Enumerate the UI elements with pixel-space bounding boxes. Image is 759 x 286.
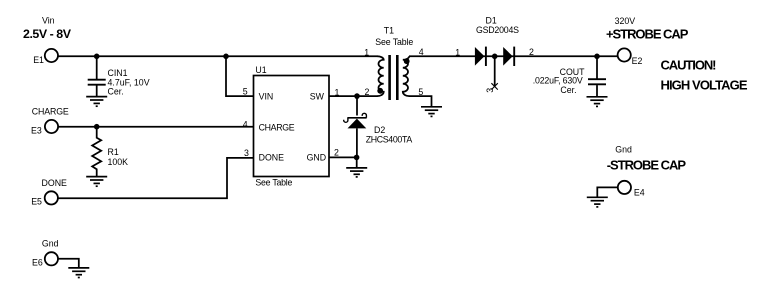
svg-text:U1: U1 bbox=[255, 65, 266, 75]
svg-text:ZHCS400TA: ZHCS400TA bbox=[366, 135, 413, 145]
wire T1 pin5 to ground bbox=[409, 96, 432, 106]
svg-text:2: 2 bbox=[334, 147, 339, 157]
wire GND pin to D2 bbox=[329, 156, 357, 158]
svg-text:4: 4 bbox=[243, 119, 248, 129]
T1 primary polarity dot bbox=[377, 88, 383, 94]
wire CIN1 top lead bbox=[96, 56, 98, 79]
svg-text:T1: T1 bbox=[384, 25, 394, 35]
svg-text:DONE: DONE bbox=[42, 178, 68, 188]
resistor R1 bbox=[92, 127, 101, 177]
wire D2 anode lead bbox=[356, 128, 358, 157]
ground at COUT bbox=[587, 97, 608, 107]
svg-text:100K: 100K bbox=[108, 157, 129, 167]
junction between diodes bbox=[492, 54, 498, 60]
junction at COUT bbox=[594, 54, 600, 60]
T1 primary winding bbox=[377, 56, 383, 96]
ground at R1 bbox=[86, 177, 107, 187]
wire DONE net bbox=[58, 158, 254, 198]
T1 secondary polarity dot bbox=[404, 58, 410, 64]
terminal E3 bbox=[45, 120, 58, 133]
svg-text:1: 1 bbox=[455, 48, 460, 58]
svg-text:DONE: DONE bbox=[259, 153, 285, 163]
ground at D2 bbox=[346, 168, 367, 177]
junction at D2 bbox=[354, 93, 360, 99]
svg-text:E2: E2 bbox=[632, 56, 643, 66]
ground at E4 bbox=[587, 197, 608, 207]
ground at E6 bbox=[68, 268, 89, 278]
svg-text:R1: R1 bbox=[108, 147, 119, 157]
svg-text:E5: E5 bbox=[31, 196, 42, 206]
terminal E1 bbox=[45, 49, 58, 62]
svg-text:2: 2 bbox=[365, 87, 370, 97]
svg-text:VIN: VIN bbox=[259, 92, 274, 102]
wire COUT top lead bbox=[596, 56, 598, 79]
svg-text:GND: GND bbox=[307, 153, 327, 163]
wire CHARGE net bbox=[58, 126, 254, 128]
svg-text:1: 1 bbox=[364, 48, 369, 58]
D1 diode A bbox=[475, 47, 485, 66]
svg-text:Cer.: Cer. bbox=[560, 85, 576, 95]
junction at R1 bbox=[94, 124, 100, 130]
terminal E6 bbox=[45, 252, 58, 265]
wire D1 pin3 stub bbox=[494, 56, 496, 87]
svg-text:HIGH VOLTAGE: HIGH VOLTAGE bbox=[661, 77, 748, 92]
svg-text:5: 5 bbox=[243, 87, 248, 97]
wire to VIN pin bbox=[226, 56, 254, 96]
junction at GND node bbox=[354, 155, 360, 161]
wire output rail bbox=[409, 55, 618, 57]
capacitor CIN1 bbox=[88, 80, 106, 85]
wire SW to T1 pin2 bbox=[329, 95, 378, 97]
svg-text:D1: D1 bbox=[486, 15, 497, 25]
wire E6 to ground bbox=[58, 259, 79, 268]
wire CIN1 bottom lead bbox=[96, 86, 98, 97]
svg-text:Cer.: Cer. bbox=[108, 87, 124, 97]
capacitor COUT bbox=[588, 79, 606, 84]
svg-text:CAUTION!: CAUTION! bbox=[661, 58, 717, 73]
svg-text:D2: D2 bbox=[374, 125, 385, 135]
junction at CIN1 bbox=[94, 54, 100, 60]
svg-text:See Table: See Table bbox=[375, 37, 413, 47]
ground at T1 bbox=[421, 107, 442, 117]
svg-text:Vin: Vin bbox=[42, 15, 55, 25]
svg-text:1: 1 bbox=[335, 88, 340, 98]
ground at CIN1 bbox=[86, 97, 107, 107]
svg-text:+STROBE CAP: +STROBE CAP bbox=[606, 27, 689, 42]
svg-text:E3: E3 bbox=[31, 125, 42, 135]
T1 core bbox=[390, 55, 398, 100]
svg-text:320V: 320V bbox=[615, 16, 636, 26]
diode D2 (schottky) bbox=[344, 113, 367, 128]
wire COUT bottom lead bbox=[596, 85, 598, 97]
svg-text:E1: E1 bbox=[33, 55, 44, 65]
svg-text:CHARGE: CHARGE bbox=[32, 106, 69, 116]
svg-text:SW: SW bbox=[310, 92, 325, 102]
no-connect X on pin 3 bbox=[491, 83, 497, 89]
D1 diode B bbox=[503, 47, 513, 66]
terminal E5 bbox=[45, 191, 58, 204]
svg-text:3: 3 bbox=[485, 88, 495, 93]
wire Vin rail bbox=[58, 55, 378, 57]
svg-text:See Table: See Table bbox=[255, 177, 292, 187]
svg-text:E4: E4 bbox=[634, 188, 645, 198]
wire to ground bbox=[356, 157, 358, 167]
IC U1 bbox=[254, 76, 330, 177]
svg-text:3: 3 bbox=[244, 148, 249, 158]
svg-text:Gnd: Gnd bbox=[42, 238, 59, 248]
svg-text:CHARGE: CHARGE bbox=[259, 122, 295, 132]
svg-text:Gnd: Gnd bbox=[615, 145, 632, 155]
wire D2 cathode lead bbox=[356, 96, 358, 115]
T1 secondary winding bbox=[403, 56, 409, 96]
svg-text:GSD2004S: GSD2004S bbox=[476, 25, 519, 35]
svg-text:2: 2 bbox=[529, 47, 534, 57]
svg-text:2.5V - 8V: 2.5V - 8V bbox=[23, 27, 72, 41]
terminal E4 bbox=[618, 181, 631, 194]
svg-text:E6: E6 bbox=[32, 258, 43, 268]
terminal E2 bbox=[618, 48, 631, 61]
wire E4 to ground bbox=[597, 187, 618, 197]
junction at VIN drop bbox=[223, 54, 229, 60]
svg-text:-STROBE CAP: -STROBE CAP bbox=[607, 158, 687, 173]
